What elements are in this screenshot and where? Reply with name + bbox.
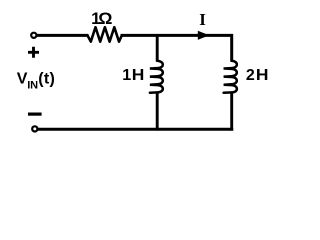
inductor L1 coil [150,61,163,93]
current arrow I [198,31,209,40]
terminal bottom-left (-) [32,126,37,131]
label 2H [246,67,269,84]
wire L1 bottom lead [156,92,159,130]
label 1 ohm [91,9,112,28]
wire bottom segment [37,128,233,131]
svg-text:Ω: Ω [98,9,112,28]
resistor R1 1ohm zigzag [88,27,122,42]
minus sign [28,112,42,115]
svg-text:H: H [132,67,145,84]
wire top-right segment to L2 corner [121,35,232,61]
wire L2 bottom lead [230,92,233,130]
label 1H [122,67,144,84]
label VIN(t) [17,71,55,92]
wire top-left segment [37,34,89,37]
svg-text:2: 2 [246,67,255,84]
inductor L2 coil [224,61,237,93]
svg-text:H: H [256,67,269,84]
wire L1 top lead from junction [156,34,159,62]
svg-text:IN: IN [27,79,38,91]
svg-text:1: 1 [122,67,131,84]
terminal top-left (+) [31,33,36,38]
plus sign [28,47,39,58]
svg-text:I: I [199,10,206,29]
svg-text:(t): (t) [38,71,55,88]
svg-text:V: V [17,71,28,88]
